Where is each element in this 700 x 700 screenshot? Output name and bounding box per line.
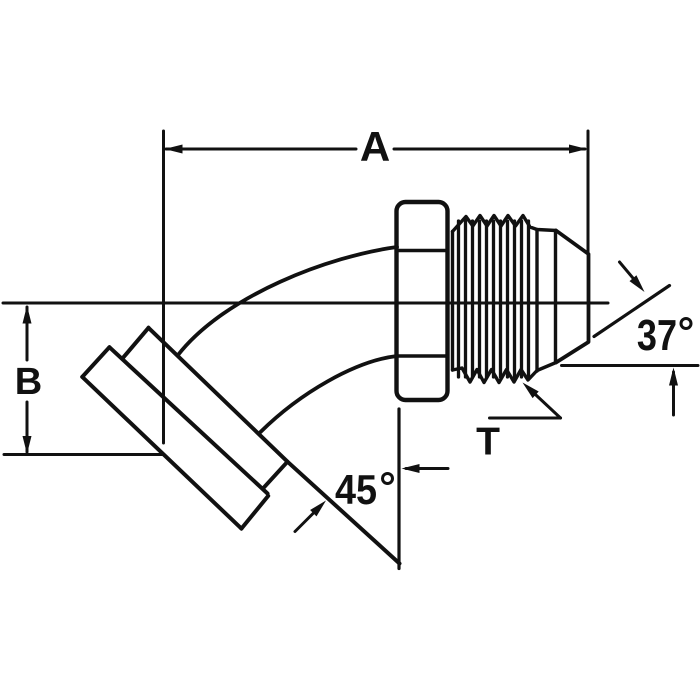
centerline (horizontal axis) [3,302,608,305]
T leader diagonal [529,389,561,419]
extension line left (A dim) [162,131,165,443]
B bottom reference line [4,453,163,456]
45deg dim horizontal leader with arrow [406,467,448,470]
thread top crest profile [453,216,557,232]
dimension line A [166,148,356,151]
arrowhead A right [569,145,587,154]
37deg horizontal reference line [562,364,699,367]
flare shoulder line [554,231,557,363]
hex face line bottom [397,354,448,357]
dimension line B [26,307,29,360]
thread flank lines [457,221,460,377]
flange front plate left cap [82,347,109,377]
37deg vertical leader with up arrow [672,372,675,415]
T leader horizontal [490,417,561,420]
45deg vertical reference line [397,409,400,569]
arrowhead B up [23,306,32,324]
arrowhead A left [165,145,183,154]
hex nut outline [397,202,448,400]
svg-text:B: B [15,361,42,403]
hex face line top [397,249,448,252]
extension line right (A dim) [587,131,590,252]
flange middle edge L2 [109,347,267,493]
svg-text:37: 37 [637,311,677,360]
svg-text:T: T [476,421,500,464]
flange back plate left cap [123,328,148,358]
flange front plate edge L3 [82,377,241,529]
body bottom bend curve [261,356,398,432]
T arrowhead [523,383,539,399]
flange front plate right cap [241,496,268,529]
thread start face [451,232,454,371]
flange back plate edge L1 + 45deg construction line [149,328,400,564]
body top bend curve [178,247,397,355]
flange back plate right cap [264,462,288,488]
flare cone outline [556,231,589,363]
37deg seat line extended [594,286,670,337]
thread runout line [535,230,538,372]
thread bottom crest profile [453,363,557,383]
svg-text:45: 45 [335,467,377,513]
45deg dim diagonal leader with arrow [295,512,315,532]
svg-text:A: A [360,123,390,170]
37deg leader arrow [620,262,641,287]
arrowhead B down [23,436,32,454]
